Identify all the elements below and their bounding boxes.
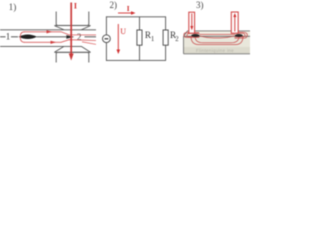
right plate current arrow up	[234, 16, 236, 32]
red current arrow I vertical	[70, 3, 72, 55]
cross-section plane top (U shape)	[56, 12, 89, 26]
svg-text:U: U	[120, 27, 126, 36]
left wire below source	[105, 43, 107, 61]
svg-text:1): 1)	[9, 2, 17, 12]
red arrowhead on top streamline	[47, 30, 53, 33]
right electrode pad	[235, 34, 243, 37]
slab top face	[184, 31, 251, 36]
R2 box	[163, 30, 168, 45]
source dash	[105, 38, 109, 40]
funnel bottom-right diagonal	[81, 46, 90, 52]
left plate current arrow down	[191, 14, 193, 28]
slab front face	[184, 36, 251, 54]
red arc around left pad	[187, 33, 200, 37]
wire bottom wall	[0, 45, 82, 47]
red current loop arcs between electrodes	[200, 33, 236, 35]
electron lens (cross-section seen edge on)	[19, 35, 38, 40]
slab back top edge	[188, 30, 251, 32]
R1 box	[137, 30, 142, 45]
slab front top edge	[184, 35, 251, 37]
circuit bottom wire	[106, 59, 166, 61]
funnel top-right diagonal	[81, 26, 90, 30]
left electrode pad	[191, 34, 199, 37]
red current arrow on top wire	[118, 12, 132, 14]
funnel top-left diagonal	[55, 26, 64, 30]
svg-text:2: 2	[175, 36, 179, 43]
red streamline top	[24, 32, 96, 35]
svg-text:I: I	[74, 2, 77, 11]
svg-text:3): 3)	[196, 0, 204, 10]
axis line left with gap for label 1	[0, 36, 6, 38]
slab bottom edge	[184, 53, 251, 55]
axis line after label 1	[11, 36, 18, 38]
R1 branch wire bottom	[139, 45, 141, 60]
red streamline bottom	[24, 40, 96, 43]
source circle	[103, 35, 111, 43]
red outer arc right	[235, 32, 248, 38]
left plate (wire 1)	[189, 12, 195, 33]
right plate (wire 2)	[231, 12, 238, 33]
slab left slant edge	[184, 31, 188, 36]
axis line lens to neck	[37, 36, 67, 38]
cross-section plane bottom (inverted U)	[56, 52, 89, 62]
funnel bottom-left diagonal	[55, 46, 64, 52]
right loop wire	[165, 16, 167, 30]
wire top wall	[0, 29, 96, 31]
arrow 2 head at neck	[66, 35, 74, 39]
red arrowhead on bottom streamline	[51, 41, 57, 44]
circuit top wire	[106, 16, 166, 18]
red flare bottom right	[82, 42, 96, 45]
R1 branch wire top	[139, 17, 141, 30]
svg-text:Flinteniquine ine: Flinteniquine ine	[196, 48, 234, 53]
slab left edge	[183, 36, 185, 54]
svg-text:1: 1	[151, 36, 154, 43]
red arc around right pad	[235, 33, 246, 37]
red voltage arrow U	[117, 24, 119, 51]
left wire above source	[105, 16, 107, 34]
axis line right of label 2	[85, 36, 97, 38]
slab darker band	[184, 47, 251, 53]
svg-text:I: I	[127, 5, 130, 13]
svg-text:2): 2)	[110, 0, 118, 10]
svg-text:1: 1	[6, 33, 11, 43]
red outer arc left	[184, 33, 199, 38]
red streamline left cap	[20, 32, 24, 43]
